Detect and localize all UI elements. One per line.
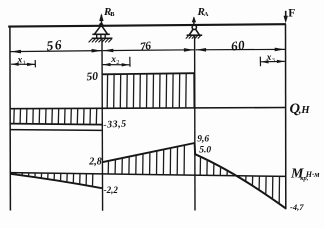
extra baseline under -33.5 rectangle: [10, 129, 102, 132]
value label -2,2: [104, 185, 119, 195]
svg-text:1: 1: [23, 60, 26, 67]
beam: [8, 24, 286, 26]
svg-text:-33,5: -33,5: [103, 119, 127, 131]
svg-text:в: в: [110, 9, 115, 18]
dimension label 56: [46, 37, 64, 54]
dimension label 60: [230, 37, 246, 54]
M jump at support B and value label 2,8: [88, 156, 102, 167]
svg-text:2,8: 2,8: [88, 156, 102, 167]
svg-text:56: 56: [46, 37, 64, 54]
label x2: [110, 55, 119, 66]
Q rectangle +50 between supports with vertical hatching: [102, 73, 195, 108]
label Ra (reaction at A): [197, 6, 209, 18]
svg-text:,Н: ,Н: [298, 105, 311, 116]
svg-text:50: 50: [86, 71, 99, 84]
svg-text:F: F: [288, 8, 295, 20]
reference line through support B: [101, 39, 104, 211]
svg-text:-4,7: -4,7: [290, 202, 304, 212]
M drop at support A: [194, 143, 197, 154]
reference line through support A: [194, 36, 196, 211]
dimension x3 with start tick: [260, 57, 285, 67]
label x1: [17, 56, 26, 67]
value label 50: [86, 71, 99, 84]
svg-text:2: 2: [116, 59, 119, 66]
Q rectangle -33.5 on left overhang with vertical hatching: [10, 109, 102, 125]
svg-text:5.0: 5.0: [199, 145, 211, 155]
value label -4,7: [290, 202, 304, 212]
dimension x2 with end tick: [103, 57, 130, 67]
label F: [288, 8, 295, 20]
dimension line 76 (support B to support A): [103, 48, 195, 52]
value label -33,5: [103, 119, 127, 131]
axis label Q,N: [290, 101, 311, 117]
extension line at left beam end: [9, 26, 12, 211]
extension line at right beam end under force F: [285, 24, 287, 209]
svg-text:x: x: [110, 55, 116, 65]
force F arrow (downward) at right beam end: [284, 11, 288, 23]
M rising segment between supports (2.8 to 9.6) with hatching: [102, 143, 194, 175]
label Rv (reaction at B): [103, 6, 115, 18]
support B: pin triangle with rollers and ground hatching: [89, 23, 113, 43]
dimension x1 with end tick: [11, 60, 35, 67]
M diagram zero axis: [10, 173, 285, 177]
svg-text:Н·м: Н·м: [305, 170, 320, 179]
dimension line 56 (left end to support B): [10, 49, 102, 54]
reaction arrow Rv at support B: [99, 13, 103, 25]
value label 9,6: [197, 135, 209, 145]
svg-text:3: 3: [272, 57, 275, 64]
svg-text:60: 60: [230, 37, 246, 54]
svg-text:A: A: [204, 11, 209, 18]
axis label M_kr, N*m: [290, 166, 320, 182]
dimension line 60 (support A to force F): [196, 48, 286, 52]
support A: pin triangle with ground hatching: [186, 25, 202, 39]
svg-text:x: x: [17, 56, 23, 66]
M curve on left overhang (0 to -2.2) with hatching: [10, 173, 102, 189]
svg-text:9,6: 9,6: [197, 135, 209, 145]
svg-text:x: x: [266, 53, 272, 63]
dimension label 76: [139, 40, 152, 53]
value label 5.0: [199, 145, 211, 155]
Q diagram zero axis: [10, 108, 286, 109]
reaction arrow Ra at support A: [192, 16, 196, 25]
label x3: [266, 53, 275, 64]
svg-text:-2,2: -2,2: [104, 185, 119, 195]
M descending segment on right overhang (5.0 to -4.7) with hatching: [195, 154, 286, 208]
